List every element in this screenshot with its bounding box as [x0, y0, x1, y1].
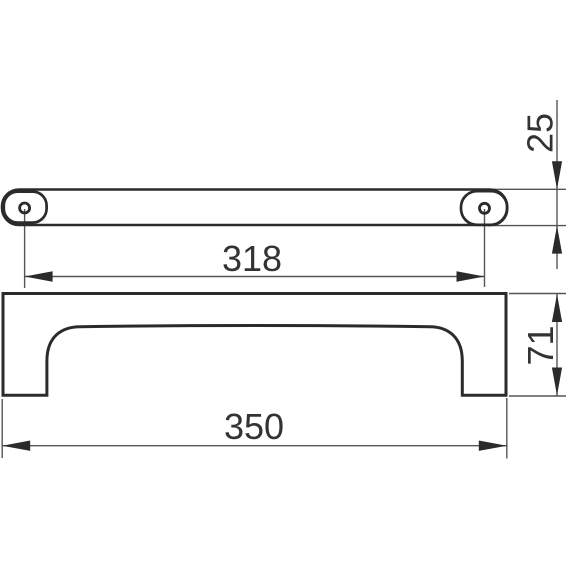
svg-text:71: 71 — [520, 325, 561, 365]
svg-text:350: 350 — [224, 406, 284, 447]
svg-text:25: 25 — [519, 113, 560, 153]
svg-text:318: 318 — [222, 238, 282, 279]
